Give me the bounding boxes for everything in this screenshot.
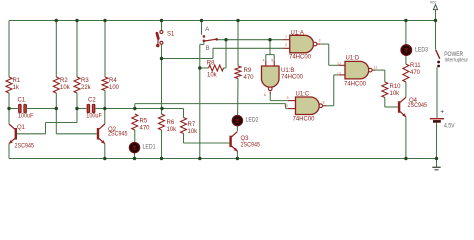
svg-text:Q1: Q1	[17, 125, 26, 131]
svg-text:12: 12	[337, 62, 341, 66]
svg-text:U1:A: U1:A	[291, 31, 304, 37]
svg-text:74HC00: 74HC00	[293, 117, 316, 123]
svg-text:R5: R5	[140, 119, 148, 125]
svg-text:74HC00: 74HC00	[289, 54, 312, 60]
svg-text:U1:C: U1:C	[296, 92, 310, 98]
svg-text:4: 4	[263, 58, 265, 62]
svg-text:LED2: LED2	[246, 117, 259, 124]
svg-text:R4: R4	[109, 78, 117, 84]
svg-text:Interrupteur: Interrupteur	[445, 58, 469, 64]
svg-text:10: 10	[284, 104, 288, 108]
svg-text:U1:D: U1:D	[346, 55, 360, 61]
svg-text:U1:B: U1:B	[281, 68, 294, 74]
svg-text:R8: R8	[207, 60, 215, 66]
svg-text:C1: C1	[18, 98, 26, 104]
svg-text:2SC945: 2SC945	[108, 132, 128, 138]
svg-text:B: B	[206, 46, 210, 52]
svg-text:6: 6	[264, 93, 266, 97]
svg-text:vcc: vcc	[430, 0, 436, 5]
svg-text:C2: C2	[88, 98, 96, 104]
svg-text:R2: R2	[60, 78, 68, 84]
svg-text:470: 470	[244, 75, 255, 81]
svg-text:R11: R11	[410, 63, 421, 69]
svg-text:R3: R3	[81, 78, 89, 84]
svg-text:10k: 10k	[390, 91, 401, 97]
svg-text:10k: 10k	[60, 85, 71, 91]
svg-text:1: 1	[285, 34, 287, 38]
svg-text:R9: R9	[244, 68, 252, 74]
svg-text:10k: 10k	[207, 73, 218, 79]
svg-text:9: 9	[287, 96, 289, 100]
svg-text:5: 5	[271, 58, 273, 62]
svg-text:470: 470	[140, 126, 151, 132]
svg-text:2SC945: 2SC945	[241, 142, 261, 148]
svg-text:100uF: 100uF	[18, 114, 34, 120]
svg-text:R6: R6	[167, 120, 175, 126]
svg-text:74HC00: 74HC00	[344, 81, 367, 87]
svg-text:2SC945: 2SC945	[408, 103, 428, 109]
svg-text:S1: S1	[167, 32, 175, 38]
svg-text:10k: 10k	[167, 127, 178, 133]
svg-text:R1: R1	[13, 78, 21, 84]
svg-text:22k: 22k	[81, 85, 92, 91]
svg-text:LED1: LED1	[143, 144, 156, 151]
svg-text:74HC00: 74HC00	[281, 75, 304, 81]
svg-text:Q3: Q3	[241, 136, 250, 142]
svg-text:A: A	[205, 27, 209, 33]
svg-text:R7: R7	[188, 122, 196, 128]
svg-text:R10: R10	[390, 84, 402, 90]
svg-text:8: 8	[323, 100, 325, 104]
svg-text:2: 2	[285, 43, 287, 47]
svg-text:100uF: 100uF	[86, 114, 102, 120]
svg-text:LED3: LED3	[415, 46, 428, 53]
svg-text:13: 13	[337, 72, 341, 76]
svg-text:470: 470	[410, 70, 421, 76]
svg-text:+: +	[440, 109, 444, 116]
svg-text:4.5V: 4.5V	[444, 122, 455, 129]
svg-text:2SC945: 2SC945	[15, 143, 35, 149]
svg-text:100: 100	[109, 85, 120, 91]
svg-text:11: 11	[374, 65, 378, 69]
svg-text:3: 3	[319, 39, 321, 43]
svg-text:10k: 10k	[188, 129, 199, 135]
svg-text:1k: 1k	[13, 85, 20, 91]
